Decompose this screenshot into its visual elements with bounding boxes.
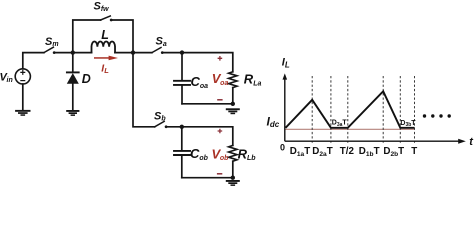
svg-text:D3bT: D3bT bbox=[400, 120, 416, 128]
wire RLa to bottom rail bbox=[232, 88, 234, 104]
svg-text:Cob: Cob bbox=[190, 146, 209, 162]
svg-text:Sa: Sa bbox=[156, 36, 167, 48]
svg-text:RLa: RLa bbox=[244, 72, 262, 88]
wire Vin top to Sm bbox=[23, 53, 44, 69]
node D junction dot bbox=[231, 102, 235, 106]
capacitor Cob plates bbox=[174, 151, 190, 155]
svg-text:D1aT: D1aT bbox=[290, 146, 310, 158]
voltage source Vin bbox=[15, 69, 30, 84]
svg-text:L: L bbox=[101, 28, 109, 42]
wire Sm contact to node A bbox=[55, 52, 73, 54]
node B junction dot bbox=[131, 50, 135, 54]
svg-text:T: T bbox=[411, 146, 417, 157]
svg-text:D: D bbox=[82, 72, 91, 86]
ground below diode D bbox=[66, 110, 79, 116]
continuation dots bbox=[423, 114, 451, 117]
branch A bottom rail bbox=[182, 103, 233, 105]
svg-text:D3aT: D3aT bbox=[332, 120, 348, 128]
dashed line D2aT bbox=[330, 76, 332, 144]
switch Sa blade bbox=[152, 48, 161, 53]
svg-text:Sm: Sm bbox=[45, 36, 59, 48]
svg-text:0: 0 bbox=[280, 142, 285, 152]
svg-text:IL: IL bbox=[282, 57, 290, 70]
svg-text:Sfw: Sfw bbox=[94, 1, 110, 13]
switch Sfw blade bbox=[101, 16, 111, 20]
diode D wire to ground bbox=[72, 84, 74, 111]
capacitor Cob bottom wire bbox=[181, 156, 183, 178]
ground output b bbox=[226, 180, 240, 186]
resistor RLb bbox=[229, 145, 237, 161]
minus output b bbox=[217, 173, 222, 175]
wire Sa contact to node C bbox=[162, 52, 182, 54]
capacitor Coa top wire bbox=[181, 53, 183, 80]
svg-text:D2aT: D2aT bbox=[312, 146, 332, 158]
wire inductor to node B bbox=[115, 52, 133, 54]
wire Vin bottom to ground bbox=[22, 84, 24, 110]
wire Sb contact to node E bbox=[166, 126, 182, 128]
diode D triangle bbox=[67, 73, 79, 84]
ground below Vin bbox=[15, 110, 30, 116]
diode D cathode bar bbox=[67, 71, 79, 73]
wire node A to inductor bbox=[73, 52, 92, 54]
inductor current waveform bbox=[286, 91, 415, 128]
node C junction dot bbox=[180, 50, 184, 54]
resistor RLa bbox=[229, 72, 237, 88]
dashed line D1bT bbox=[382, 76, 384, 144]
wire node A up and Sfw loop left bbox=[73, 20, 101, 53]
switch Sb blade bbox=[155, 121, 165, 126]
dashed line D1aT bbox=[311, 76, 313, 144]
svg-text:Vob: Vob bbox=[212, 146, 230, 162]
branch B bottom rail bbox=[182, 177, 233, 179]
node E junction dot bbox=[180, 125, 184, 129]
capacitor Coa bottom wire bbox=[181, 86, 183, 104]
switch Sfw contact dot bbox=[110, 19, 113, 22]
svg-text:Coa: Coa bbox=[191, 74, 209, 90]
diode D wire from node A bbox=[72, 53, 74, 72]
node A junction dot bbox=[71, 50, 75, 54]
dashed line D2bT bbox=[399, 76, 401, 144]
capacitor Coa plates bbox=[174, 81, 190, 85]
wire node B to Sa bbox=[133, 52, 152, 54]
dashed line T bbox=[414, 76, 416, 144]
branch B top rail bbox=[182, 127, 233, 146]
svg-text:RLb: RLb bbox=[238, 146, 257, 162]
svg-text:D2bT: D2bT bbox=[383, 146, 404, 158]
x axis bbox=[285, 139, 466, 144]
Vin plus mark bbox=[21, 71, 25, 75]
wire node B down to Sb bbox=[133, 53, 155, 127]
wire RLb to bottom rail bbox=[232, 161, 234, 178]
branch A top rail bbox=[182, 53, 233, 72]
svg-text:Vin: Vin bbox=[0, 72, 13, 85]
svg-text:Sb: Sb bbox=[154, 110, 166, 122]
Idc red reference line bbox=[285, 128, 414, 130]
plus output a bbox=[218, 56, 223, 61]
svg-text:Idc: Idc bbox=[267, 114, 280, 129]
switch Sm blade bbox=[44, 47, 54, 52]
minus output a bbox=[217, 99, 222, 101]
svg-text:T/2: T/2 bbox=[340, 146, 355, 157]
svg-text:Voa: Voa bbox=[212, 71, 229, 87]
plus output b bbox=[218, 129, 223, 134]
inductor L bbox=[92, 41, 116, 52]
capacitor Cob top wire bbox=[181, 127, 183, 150]
svg-text:IL: IL bbox=[101, 62, 109, 75]
switch Sm contact dot bbox=[53, 51, 56, 54]
switch Sa contact dot bbox=[161, 51, 164, 54]
svg-text:D1bT: D1bT bbox=[359, 146, 380, 158]
wire Sfw contact right and down to node B bbox=[111, 20, 133, 53]
y axis bbox=[283, 73, 288, 141]
Vin minus mark bbox=[21, 80, 25, 82]
switch Sb contact dot bbox=[165, 125, 168, 128]
ground output a bbox=[226, 108, 240, 114]
dashed line T/2 bbox=[347, 76, 349, 144]
current arrow IL bbox=[94, 56, 118, 61]
svg-text:t: t bbox=[469, 136, 474, 148]
node F junction dot bbox=[231, 176, 235, 180]
